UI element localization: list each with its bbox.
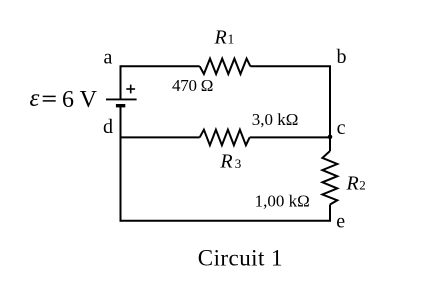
resistor R2 zigzag vertical — [322, 151, 337, 205]
wire middle d to R3 — [121, 136, 200, 138]
svg-text:d: d — [103, 116, 113, 138]
resistor R3 zigzag — [200, 130, 250, 146]
wire left vertical battery to bottom corner — [120, 106, 122, 221]
wire bottom — [120, 220, 332, 222]
svg-text:6 V: 6 V — [62, 87, 98, 113]
svg-text:Circuit 1: Circuit 1 — [198, 246, 283, 271]
svg-text:1: 1 — [228, 31, 235, 46]
wire right vertical b to R2 — [329, 66, 331, 151]
svg-text:ε: ε — [30, 85, 40, 112]
svg-text:R: R — [346, 173, 359, 195]
wire top right segment to b — [250, 65, 331, 67]
resistor R1 zigzag — [200, 59, 251, 74]
svg-text:b: b — [337, 46, 347, 68]
svg-text:1,00 kΩ: 1,00 kΩ — [255, 192, 310, 211]
svg-text:3,0 kΩ: 3,0 kΩ — [252, 110, 299, 129]
svg-text:e: e — [336, 211, 345, 233]
wire left vertical a to battery — [120, 65, 122, 99]
wire top from a to b with R1 — [121, 65, 200, 67]
svg-text:R: R — [219, 151, 232, 173]
svg-text:R: R — [214, 26, 227, 48]
svg-text:a: a — [104, 47, 113, 69]
wire right vertical R2 to e corner — [329, 205, 331, 222]
wire middle R3 to node c — [250, 136, 330, 138]
svg-text:2: 2 — [359, 178, 366, 193]
battery negative plate — [116, 104, 125, 107]
junction dot node c — [328, 135, 333, 140]
svg-text:c: c — [337, 117, 346, 139]
svg-text:470 Ω: 470 Ω — [172, 76, 213, 95]
svg-text:3: 3 — [235, 156, 242, 171]
battery plus sign — [126, 85, 135, 94]
battery positive plate — [106, 98, 137, 100]
